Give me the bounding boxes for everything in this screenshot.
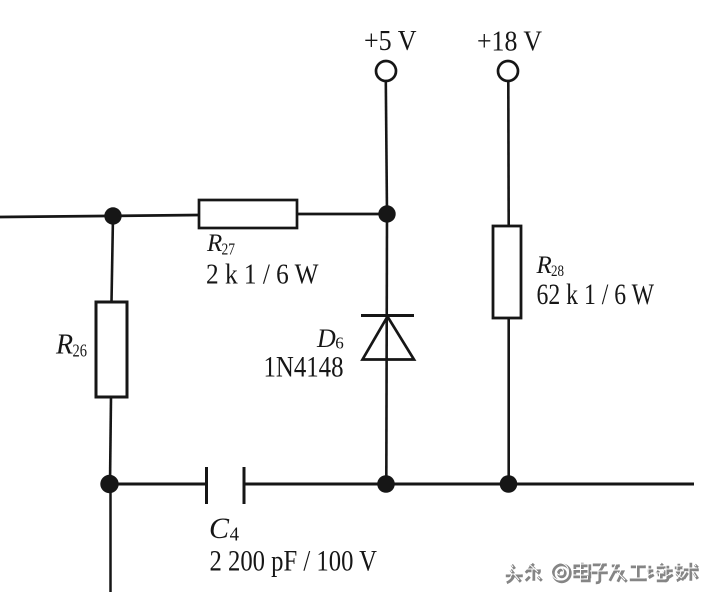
wire: +18V stem down to R28 [507, 81, 510, 226]
diode D6 triangle [363, 317, 415, 360]
power terminal +18V circle [498, 61, 518, 81]
node junction J5 (under R28 on bottom rail) [500, 475, 518, 493]
svg-text:D: D [316, 324, 336, 353]
svg-text:2 k 1 / 6 W: 2 k 1 / 6 W [206, 260, 319, 291]
wire: R28 bottom to node J5 [507, 318, 510, 484]
node junction J2 (under +5V, diode top) [378, 205, 395, 222]
resistor R28 body [493, 226, 521, 318]
diode D6 cathode bar [361, 314, 414, 317]
node junction J3 (bottom-left) [100, 475, 118, 493]
svg-text:R: R [536, 252, 552, 279]
svg-text:R: R [55, 330, 73, 361]
wire: vertical from J1 down to R26 [112, 216, 114, 302]
wire: +5V stem down to node J2 [386, 81, 387, 214]
svg-text:27: 27 [222, 240, 236, 259]
capacitor C4 left plate [205, 467, 208, 504]
wire: vertical from J2 down through diode to J4 [385, 214, 388, 484]
svg-text:1N4148: 1N4148 [264, 351, 344, 384]
resistor R27 body [199, 200, 297, 228]
wire: stub below J3 going down [109, 484, 112, 592]
wire: vertical from R26 bottom to node J3 [110, 397, 111, 484]
power terminal +5V circle [376, 61, 396, 81]
svg-text:26: 26 [73, 341, 88, 361]
wire: bottom horizontal, right segment C4 to right end [244, 483, 694, 486]
wire: top horizontal, left segment from left edge to R27 [0, 215, 199, 217]
wire: bottom horizontal, left segment J3 to C4 [110, 483, 206, 486]
capacitor C4 right plate [243, 467, 246, 504]
svg-text:R: R [206, 230, 222, 257]
node junction J1 (R26 tap on top rail) [104, 207, 121, 224]
svg-text:62 k 1 / 6 W: 62 k 1 / 6 W [537, 278, 655, 311]
svg-text:4: 4 [230, 524, 239, 546]
svg-text:+5 V: +5 V [364, 25, 417, 57]
svg-text:2 200 pF / 100 V: 2 200 pF / 100 V [210, 545, 378, 578]
svg-text:C: C [209, 512, 230, 545]
svg-text:+18 V: +18 V [477, 26, 542, 58]
node junction J4 (diode bottom on bottom rail) [377, 475, 395, 493]
resistor R26 body [96, 302, 127, 397]
wire: top horizontal, right segment from R27 to node J2 [297, 213, 387, 216]
